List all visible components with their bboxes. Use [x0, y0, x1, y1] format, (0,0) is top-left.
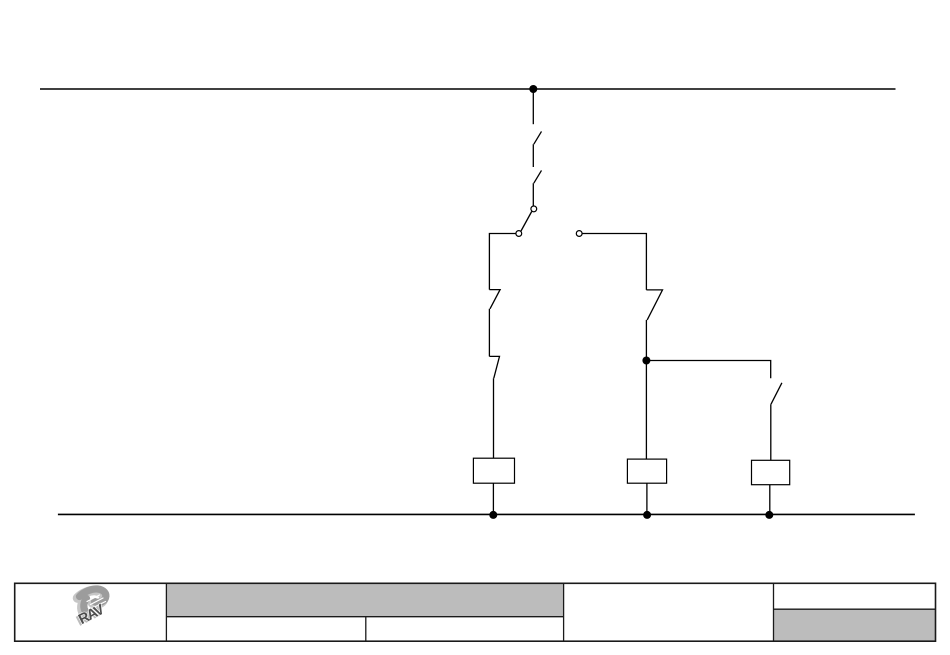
coil K2 [627, 459, 666, 483]
logo RAV letters [76, 602, 107, 629]
logo ribbon halo [78, 591, 104, 614]
switch Q1 pole 2 blade [534, 170, 542, 183]
logo ribbon [80, 589, 106, 612]
node K1 on bottom rail [489, 511, 497, 519]
wire from top rail down to switch Q1 [532, 89, 534, 124]
title block horizontal divider left [166, 616, 563, 618]
title block divider middle/right [773, 583, 775, 641]
node K3 on bottom rail [765, 511, 773, 519]
breaker element F2 zigzag [646, 290, 662, 320]
title block divider header/middle [563, 583, 565, 641]
wire between overload elements [488, 309, 490, 357]
title block divider logo/header [165, 583, 167, 641]
title block outer border [15, 583, 936, 641]
wire coil K1 to bottom rail [492, 483, 494, 514]
node A branch junction [642, 357, 650, 365]
selector switch left terminal circle [516, 231, 522, 237]
node junction on top rail [529, 85, 537, 93]
wire coil K3 to bottom rail [769, 485, 771, 515]
logo ribbon hatch stripes [87, 595, 106, 607]
coil K3 [752, 460, 790, 484]
selector switch common terminal circle [531, 206, 537, 212]
wire top supply rail [40, 88, 896, 90]
logo RAV letters shadow [74, 603, 105, 630]
wire between Q1 poles [532, 144, 534, 167]
wire contact K3 to coil K3 [770, 404, 772, 460]
wire overload to coil K1 [493, 378, 495, 458]
selector switch blade [521, 212, 532, 232]
coil K1 [473, 458, 514, 483]
wire bottom return rail [58, 513, 915, 515]
logo RAV [74, 589, 107, 630]
contact K3 blade [771, 383, 782, 404]
selector switch right terminal circle [576, 231, 582, 237]
title block frame [15, 583, 936, 641]
overload element F1b zigzag [489, 356, 499, 378]
overload element F1a zigzag [489, 290, 500, 309]
wire breaker to node A [645, 320, 647, 361]
node K2 on bottom rail [643, 511, 651, 519]
switch Q1 pole 1 blade [534, 131, 542, 144]
wire selector left terminal to branch 1 [489, 234, 515, 290]
title block cell divider [365, 617, 367, 642]
wire node A to coil K2 [645, 361, 647, 460]
title block horizontal divider right [774, 608, 936, 610]
wire selector right terminal to branch 2 [582, 234, 646, 290]
wire node A to contact K3 [646, 361, 770, 379]
title block gray header cell [166, 583, 563, 616]
wire Q1 pole 2 to selector common [532, 183, 534, 206]
title block gray revision cell [774, 609, 936, 641]
wire coil K2 to bottom rail [646, 483, 648, 514]
